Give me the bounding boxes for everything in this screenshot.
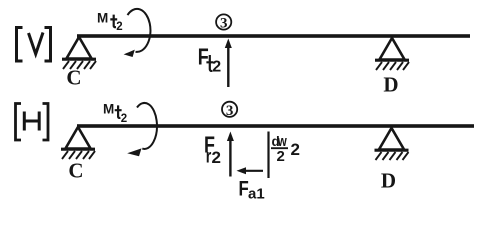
svg-text:D: D	[383, 73, 398, 97]
svg-text:3: 3	[220, 16, 228, 32]
svg-text:C: C	[66, 66, 81, 90]
svg-text:D: D	[381, 169, 396, 193]
svg-text:2: 2	[116, 21, 122, 33]
svg-text:2: 2	[277, 148, 285, 165]
svg-text:C: C	[68, 159, 83, 183]
svg-text:2: 2	[212, 148, 221, 167]
svg-text:2: 2	[291, 140, 300, 159]
svg-text:M: M	[97, 11, 108, 26]
svg-text:2: 2	[121, 113, 127, 125]
svg-text:M: M	[103, 102, 114, 117]
svg-text:3: 3	[226, 103, 234, 119]
svg-text:2: 2	[212, 58, 221, 75]
svg-text:F: F	[198, 44, 209, 70]
svg-text:a1: a1	[248, 186, 265, 203]
